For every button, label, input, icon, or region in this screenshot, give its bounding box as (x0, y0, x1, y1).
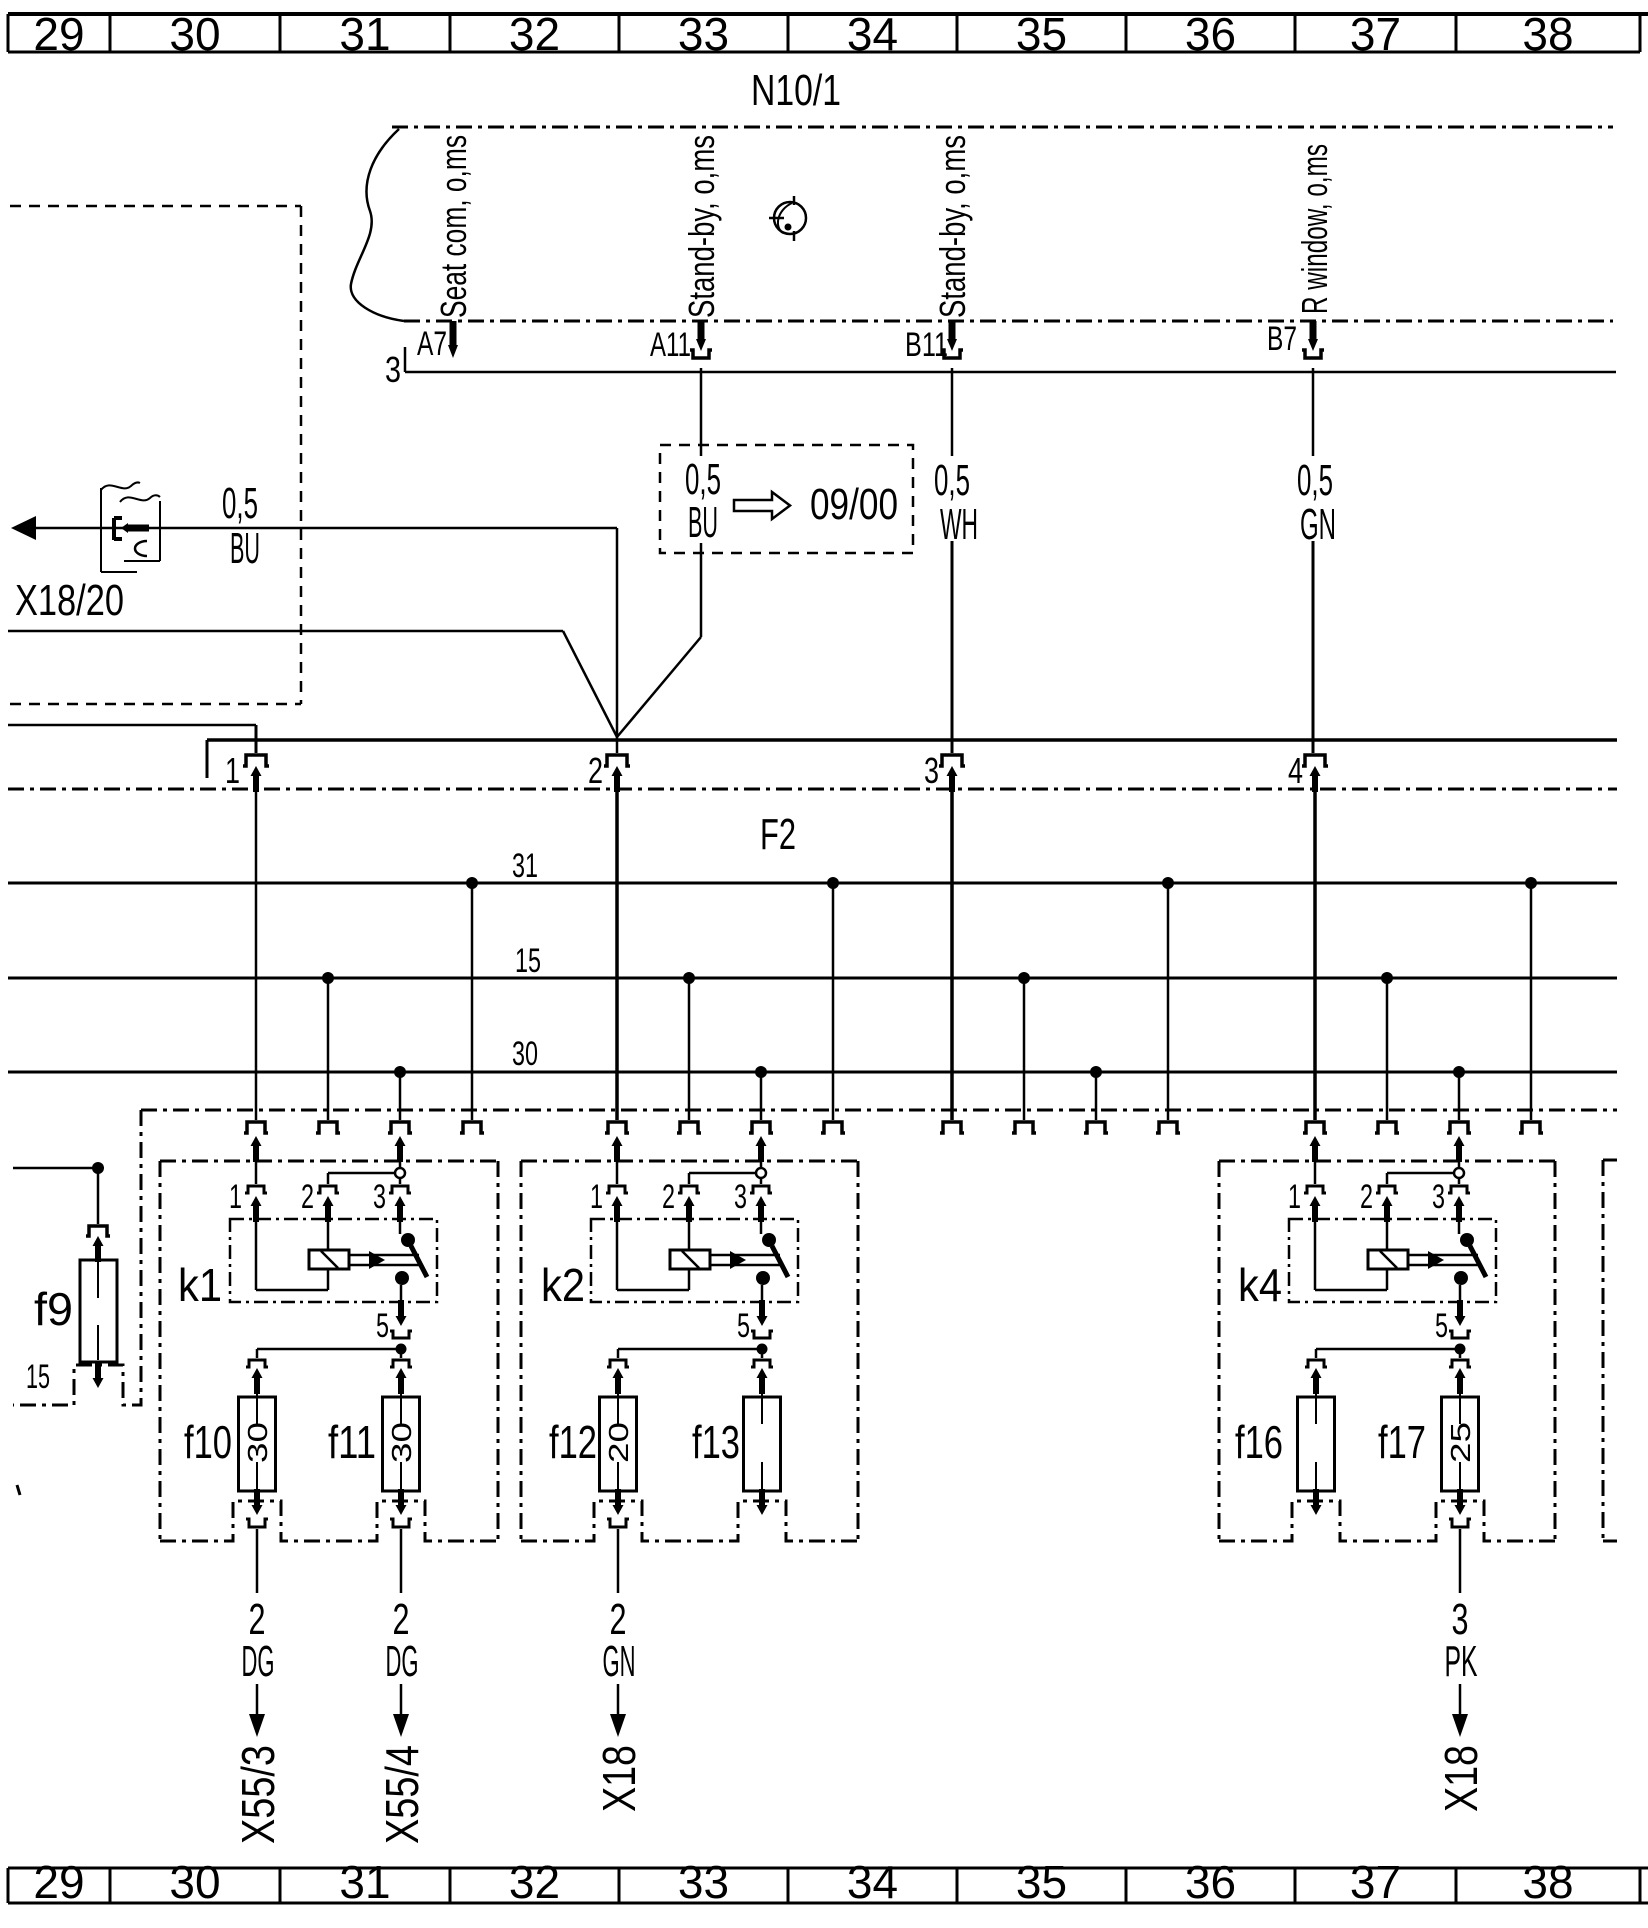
junction ring k2 pin 3 feed (756, 1168, 766, 1178)
box socket at x=617 (605, 1122, 629, 1133)
relay k4 actuator shaft and arrow (1408, 1251, 1478, 1269)
relay k1 feed pin (terminal 3 column) (395, 1136, 406, 1168)
svg-text:X18: X18 (593, 1745, 645, 1812)
svg-text:15: 15 (26, 1358, 50, 1396)
svg-text:f13: f13 (692, 1416, 740, 1468)
wire k4 junction to pin 2 (1387, 1173, 1459, 1184)
relay k1 feed pin (terminal 1 column) (251, 1136, 262, 1184)
box socket at x=833 (821, 1122, 845, 1133)
svg-text:B7: B7 (1267, 320, 1297, 358)
svg-text:34: 34 (847, 8, 898, 60)
arrow to X18/20 (off-page, pointing left) (11, 516, 36, 540)
fuse f16 (1298, 1394, 1335, 1491)
terminal 4 socket and pin (1302, 755, 1328, 1120)
output socket below fuse at x=618 (607, 1519, 629, 1527)
svg-text:2: 2 (588, 750, 603, 791)
svg-text:3: 3 (924, 750, 939, 791)
svg-text:29: 29 (33, 8, 84, 60)
svg-text:0,5: 0,5 (222, 479, 258, 528)
svg-text:1: 1 (590, 1178, 603, 1216)
svg-text:BU: BU (230, 524, 260, 573)
junction dot k1 pin 5 to fuses (396, 1344, 407, 1355)
svg-text:34: 34 (847, 1856, 898, 1908)
svg-text:f17: f17 (1378, 1416, 1426, 1468)
wire k4 pin 5 to fuse feeds (1316, 1349, 1460, 1358)
svg-text:2: 2 (1360, 1178, 1373, 1216)
fuse f9 output pin (terminal 15) (93, 1362, 104, 1388)
bottom ruler band (8, 1868, 1648, 1903)
svg-text:A7: A7 (417, 325, 447, 363)
fuse f12 output pin (613, 1489, 624, 1515)
wire from left edge to terminal 1 (8, 725, 256, 753)
relay k2 switch blade (772, 1246, 788, 1277)
relay k4 coil (1368, 1250, 1408, 1269)
relay k4 coil wiring to pins 1 and 2 (1315, 1220, 1387, 1290)
svg-text:3: 3 (373, 1178, 386, 1216)
relay k1 actuator shaft and arrow (349, 1251, 419, 1269)
junction dot k4 pin 5 to fuses (1455, 1344, 1466, 1355)
svg-text:k1: k1 (178, 1259, 222, 1311)
relay k4 pin 3 socket (1448, 1186, 1470, 1222)
svg-text:0,5: 0,5 (685, 455, 721, 504)
box socket at x=400 (388, 1122, 412, 1133)
svg-text:35: 35 (1016, 8, 1067, 60)
svg-text:Seat com, o,ms: Seat com, o,ms (433, 135, 474, 318)
pin B7 of N10/1 (R window, o,ms) (1302, 321, 1324, 358)
junction ring k4 pin 3 feed (1454, 1168, 1464, 1178)
svg-text:33: 33 (678, 1856, 729, 1908)
label 0,5 WH (934, 456, 978, 549)
svg-text:X55/4: X55/4 (376, 1745, 428, 1844)
tap from rail 30 at x=761 (755, 1066, 767, 1120)
rail 30 (horizontal) (8, 1071, 1617, 1074)
box socket at x=1024 (1012, 1122, 1036, 1133)
label 0,5 BU (A11 wire) (685, 455, 721, 547)
svg-text:3: 3 (1432, 1178, 1445, 1216)
terminal 2 socket and pin (604, 755, 630, 1120)
svg-text:1: 1 (225, 750, 240, 791)
svg-text:N10/1: N10/1 (751, 66, 841, 115)
tap from rail 31 at x=833 (827, 877, 839, 1120)
relay k4 pin 2 socket (1376, 1186, 1398, 1222)
box socket at x=1459 (1447, 1122, 1471, 1133)
relay k2 pin 2 socket (678, 1186, 700, 1222)
relay k1 pin 5 and socket (390, 1300, 412, 1338)
svg-text:Stand-by, o,ms: Stand-by, o,ms (681, 135, 722, 318)
fuse f17 feed socket and pin (1449, 1360, 1471, 1394)
svg-text:f16: f16 (1235, 1416, 1283, 1468)
stray mark (17, 1485, 20, 1495)
fuse f16 output pin (1311, 1489, 1322, 1515)
label 0,5 BU (X18/20 wire) (222, 479, 260, 573)
wire k1 pin 5 to fuse feeds (257, 1349, 401, 1358)
tap from rail 31 at x=1531 (1525, 877, 1537, 1120)
wire k1 junction to pin 2 (328, 1173, 400, 1184)
relay k2 feed pin (terminal 3 column) (756, 1136, 767, 1168)
svg-text:R window, o,ms: R window, o,ms (1294, 144, 1335, 314)
svg-text:36: 36 (1185, 1856, 1236, 1908)
svg-text:F2: F2 (760, 810, 796, 859)
bottom ruler numbers 29-38 (33, 1856, 1573, 1908)
box socket at x=1315 (1303, 1122, 1327, 1133)
tap from rail 15 at x=1387 (1381, 972, 1393, 1120)
pin A7 of N10/1 (Seat com, o,ms) (448, 321, 458, 358)
svg-text:5: 5 (376, 1307, 389, 1345)
output socket below fuse at x=1460 (1449, 1519, 1471, 1527)
svg-text:f12: f12 (549, 1416, 597, 1468)
relay k1 coil (309, 1250, 349, 1269)
svg-text:k4: k4 (1238, 1259, 1282, 1311)
box socket at x=472 (460, 1122, 484, 1133)
terminal 3 socket and pin (939, 755, 965, 1120)
svg-text:30: 30 (512, 1035, 538, 1073)
svg-text:25: 25 (1445, 1422, 1476, 1463)
tap from rail 15 at x=1024 (1018, 972, 1030, 1120)
svg-text:3: 3 (385, 349, 401, 390)
relay k1 switch contact (pin 5 side) (395, 1271, 409, 1302)
relay k4 pin 5 and socket (1449, 1300, 1471, 1338)
wire from left edge to node 2 (via diagonal) (8, 631, 617, 737)
relay k2 pin 1 socket (606, 1186, 628, 1222)
fuse f9 (80, 1260, 117, 1362)
box socket at x=1531 (1519, 1122, 1543, 1133)
tap from rail 31 at x=472 (466, 877, 478, 1120)
relay k1 pin 2 socket (317, 1186, 339, 1222)
fuse f10 feed socket and pin (246, 1360, 268, 1394)
relay k2 feed pin (terminal 1 column) (612, 1136, 623, 1184)
relay k4 switch contact (pin 5 side) (1454, 1271, 1468, 1302)
relay k1 inner outline (dash-dot) (230, 1219, 437, 1302)
svg-text:BU: BU (688, 498, 718, 547)
box socket at x=952 (940, 1122, 964, 1133)
reference arrow symbol (to 09/00) (734, 492, 790, 519)
tap from rail 15 at x=328 (322, 972, 334, 1120)
svg-text:1: 1 (1288, 1178, 1301, 1216)
svg-text:X18: X18 (1435, 1745, 1487, 1812)
fuse and relay box outline (dash-dot, wraps around f9) (13, 1110, 1617, 1405)
box socket at x=328 (316, 1122, 340, 1133)
junction ring k1 pin 3 feed (395, 1168, 405, 1178)
fuse f16 feed socket and pin (1305, 1360, 1327, 1394)
output socket below fuse at x=401 (390, 1519, 412, 1527)
svg-text:X18/20: X18/20 (15, 576, 124, 625)
svg-text:1: 1 (229, 1178, 242, 1216)
relay/fuse compartment k1 (dash-dot outline with output notches) (160, 1161, 498, 1541)
top ruler band (8, 14, 1648, 52)
output wire 2 DG (393, 1529, 409, 1737)
symbol (circle) inside N10/1 (769, 196, 806, 241)
svg-text:37: 37 (1350, 1856, 1401, 1908)
wire from B11 (0,5 WH) down to terminal 3 (951, 368, 954, 753)
wire 3 (horizontal line from N10/1 connector) (405, 347, 1616, 372)
svg-text:31: 31 (512, 847, 538, 885)
svg-text:f11: f11 (328, 1416, 376, 1468)
relay k2 pin 3 socket (750, 1186, 772, 1222)
relay/fuse compartment k4 (dash-dot outline with output notches) (1219, 1161, 1555, 1541)
wire from B7 (0,5 GN) down to terminal 4 (1312, 368, 1315, 753)
relay k1 pin 1 socket (245, 1186, 267, 1222)
svg-text:X55/3: X55/3 (232, 1745, 284, 1844)
fuse f12 (600, 1394, 637, 1491)
relay/fuse compartment k2 (dash-dot outline with output notches) (521, 1161, 858, 1541)
svg-text:35: 35 (1016, 1856, 1067, 1908)
wire from left edge to fuse f9 (13, 1162, 104, 1224)
rail 31 (horizontal) (8, 882, 1617, 885)
relay k2 coil wiring to pins 1 and 2 (617, 1220, 689, 1290)
tap from rail 15 at x=689 (683, 972, 695, 1120)
svg-text:WH: WH (940, 500, 978, 549)
svg-text:38: 38 (1522, 8, 1573, 60)
control unit N10/1 outline (dash-dot box, wavy break at left) (351, 127, 1613, 321)
fuse f17 output pin (1455, 1489, 1466, 1515)
svg-text:f9: f9 (34, 1283, 73, 1335)
relay k1 switch contact (pin 3 side) (400, 1222, 415, 1247)
svg-text:0,5: 0,5 (1297, 456, 1333, 505)
box socket at x=256 (244, 1122, 268, 1133)
svg-text:36: 36 (1185, 8, 1236, 60)
svg-text:k2: k2 (541, 1259, 585, 1311)
svg-text:GN: GN (1300, 500, 1336, 549)
svg-text:2: 2 (301, 1178, 314, 1216)
svg-text:5: 5 (1435, 1307, 1448, 1345)
connector X18/20 symbol (101, 482, 160, 572)
box socket at x=1096 (1084, 1122, 1108, 1133)
svg-text:30: 30 (242, 1422, 273, 1463)
pin B11 of N10/1 (Stand-by, o,ms) (941, 321, 963, 358)
svg-text:DG: DG (242, 1637, 275, 1686)
svg-text:5: 5 (737, 1307, 750, 1345)
relay k2 switch contact (pin 3 side) (761, 1222, 776, 1247)
svg-text:30: 30 (169, 8, 220, 60)
svg-text:31: 31 (339, 8, 390, 60)
fuse f13 feed socket and pin (751, 1360, 773, 1394)
relay k2 inner outline (dash-dot) (591, 1219, 798, 1302)
box socket at x=761 (749, 1122, 773, 1133)
dashed reference box 0,5 BU to 09/00 (660, 445, 913, 553)
relay k4 switch blade (1470, 1246, 1486, 1277)
label 0,5 GN (1297, 456, 1336, 549)
svg-text:B11: B11 (905, 326, 948, 364)
svg-text:30: 30 (386, 1422, 417, 1463)
svg-text:0,5: 0,5 (934, 456, 970, 505)
svg-text:29: 29 (33, 1856, 84, 1908)
svg-text:3: 3 (734, 1178, 747, 1216)
dash-dot boundary line F2 (8, 788, 1617, 791)
svg-text:30: 30 (169, 1856, 220, 1908)
svg-text:f10: f10 (184, 1416, 232, 1468)
fuse f11 output pin (396, 1489, 407, 1515)
relay k2 actuator shaft and arrow (710, 1251, 780, 1269)
svg-text:32: 32 (509, 1856, 560, 1908)
tap from rail 30 at x=1459 (1453, 1066, 1465, 1120)
output wire 2 GN (610, 1529, 626, 1737)
relay k4 switch contact (pin 3 side) (1459, 1222, 1474, 1247)
box socket at x=1387 (1375, 1122, 1399, 1133)
box socket at x=1168 (1156, 1122, 1180, 1133)
relay k1 switch blade (411, 1246, 427, 1277)
fuse f13 output pin (757, 1489, 768, 1515)
wire from A11 (0,5 BU) down to node 2 (617, 368, 701, 737)
fuse f10 output pin (252, 1489, 263, 1515)
svg-text:DG: DG (386, 1637, 419, 1686)
rail 15 (horizontal) (8, 977, 1617, 980)
output wire 3 PK (1452, 1529, 1468, 1737)
fuse f10 (239, 1394, 276, 1491)
box socket at x=689 (677, 1122, 701, 1133)
relay k4 feed pin (terminal 1 column) (1310, 1136, 1321, 1184)
svg-text:38: 38 (1522, 1856, 1573, 1908)
wire k2 pin 5 to fuse feeds (618, 1349, 762, 1358)
tap from rail 30 at x=400 (394, 1066, 406, 1120)
terminal 1 socket and pin (243, 755, 269, 1120)
wire 0,5 BU from X18/20 to node 2 (36, 528, 617, 753)
svg-text:Stand-by, o,ms: Stand-by, o,ms (932, 135, 973, 318)
tap from rail 30 at x=1096 (1090, 1066, 1102, 1120)
relay k2 switch contact (pin 5 side) (756, 1271, 770, 1302)
svg-text:20: 20 (603, 1422, 634, 1463)
top ruler numbers 29-38 (33, 8, 1573, 60)
partial compartment at right edge (1603, 1160, 1617, 1541)
output socket below fuse at x=257 (246, 1519, 268, 1527)
svg-text:GN: GN (603, 1637, 636, 1686)
svg-text:09/00: 09/00 (810, 480, 898, 529)
relay k2 coil (670, 1250, 710, 1269)
relay k4 feed pin (terminal 3 column) (1454, 1136, 1465, 1168)
fuse f11 (383, 1394, 420, 1491)
dashed boundary box (upper left) (10, 206, 301, 704)
junction dot k2 pin 5 to fuses (757, 1344, 768, 1355)
svg-text:32: 32 (509, 8, 560, 60)
fuse f11 feed socket and pin (390, 1360, 412, 1394)
fuse f13 (744, 1394, 781, 1491)
svg-text:15: 15 (515, 942, 541, 980)
fuse f9 connector socket and pin (86, 1226, 110, 1262)
relay k4 inner outline (dash-dot) (1289, 1219, 1496, 1302)
svg-text:A11: A11 (650, 326, 691, 364)
svg-text:2: 2 (662, 1178, 675, 1216)
svg-text:4: 4 (1288, 750, 1303, 791)
relay k2 pin 5 and socket (751, 1300, 773, 1338)
wire k2 junction to pin 2 (689, 1173, 761, 1184)
relay k1 pin 3 socket (389, 1186, 411, 1222)
pin A11 of N10/1 (Stand-by, o,ms) (690, 321, 712, 358)
relay k4 pin 1 socket (1304, 1186, 1326, 1222)
fuse f12 feed socket and pin (607, 1360, 629, 1394)
connector rail (horizontal, terminals 1-4) (207, 740, 1617, 778)
svg-text:33: 33 (678, 8, 729, 60)
svg-text:31: 31 (339, 1856, 390, 1908)
svg-text:PK: PK (1445, 1637, 1478, 1686)
tap from rail 31 at x=1168 (1162, 877, 1174, 1120)
relay k1 coil wiring to pins 1 and 2 (256, 1220, 328, 1290)
output wire 2 DG (249, 1529, 265, 1737)
fuse f17 (1442, 1394, 1479, 1491)
svg-text:37: 37 (1350, 8, 1401, 60)
